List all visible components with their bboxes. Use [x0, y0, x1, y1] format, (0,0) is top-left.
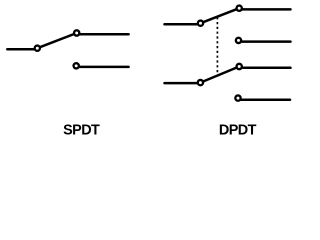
wire: DPDT pole 2 throw 2 lead — [238, 98, 290, 101]
terminal: SPDT throw 1 contact — [74, 30, 79, 35]
wire: DPDT pole 1 common lead — [165, 23, 201, 26]
terminal: DPDT pole 1 throw 2 contact — [236, 38, 241, 43]
wire: DPDT pole 1 throw 1 lead — [239, 8, 290, 11]
wire: DPDT pole 2 throw 1 lead — [239, 67, 290, 70]
terminal: DPDT pole 1 contact — [198, 21, 203, 26]
terminal: DPDT pole 2 throw 1 contact — [237, 64, 242, 69]
wire: DPDT pole 2 lever (pole to throw 1) — [200, 67, 239, 83]
terminal: SPDT pole contact — [35, 46, 40, 51]
terminal: DPDT pole 1 throw 1 contact — [237, 6, 242, 11]
terminal: SPDT throw 2 contact — [74, 63, 79, 68]
wire: DPDT pole 2 common lead — [165, 82, 201, 85]
svg-text:SPDT: SPDT — [63, 123, 100, 139]
wire: DPDT pole 1 lever (pole to throw 1) — [201, 8, 240, 23]
wire: SPDT common (pole) lead — [7, 48, 37, 51]
wire: SPDT throw 1 lead — [77, 33, 129, 36]
wire: SPDT throw 2 lead — [76, 66, 128, 69]
wire: DPDT pole 1 throw 2 lead — [239, 40, 291, 43]
wire: SPDT lever (pole to throw 1) — [37, 33, 76, 48]
svg-text:DPDT: DPDT — [219, 123, 257, 139]
terminal: DPDT pole 2 throw 2 contact — [235, 95, 240, 100]
terminal: DPDT pole 2 contact — [198, 80, 203, 85]
mechanical link: DPDT dashed gang line — [216, 17, 218, 75]
